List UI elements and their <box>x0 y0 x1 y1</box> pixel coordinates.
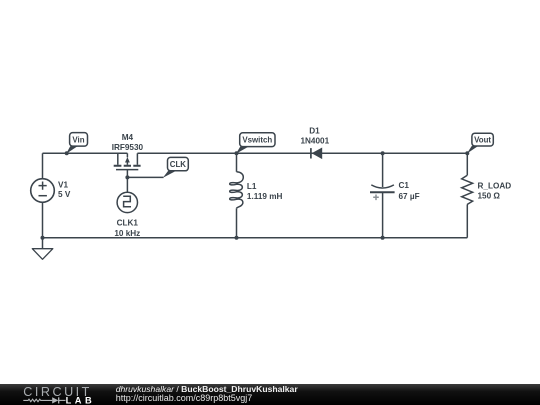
junction dot C1 top <box>381 151 385 155</box>
svg-text:1.119 mH: 1.119 mH <box>247 192 283 201</box>
node Vout flag <box>467 133 494 153</box>
svg-text:10 kHz: 10 kHz <box>114 229 140 238</box>
CircuitLab logo text LAB <box>66 396 96 405</box>
junction dot V1 ground <box>41 236 45 240</box>
capacitor C1 <box>370 153 420 237</box>
node Vswitch flag <box>236 133 275 154</box>
junction dot C1 bottom <box>381 236 385 240</box>
svg-text:CLK1: CLK1 <box>117 218 139 227</box>
svg-text:150 Ω: 150 Ω <box>478 192 501 201</box>
svg-text:67 µF: 67 µF <box>399 192 420 201</box>
svg-text:D1: D1 <box>309 126 320 135</box>
resistor R_LOAD <box>462 153 512 237</box>
svg-text:R_LOAD: R_LOAD <box>478 181 512 190</box>
svg-text:Vswitch: Vswitch <box>242 136 272 145</box>
diode D1 <box>300 126 329 159</box>
CircuitLab logo wire with resistor and diode <box>23 397 65 403</box>
junction dot Vout tap <box>465 151 469 155</box>
footer line 1: author / title <box>116 384 299 394</box>
svg-text:L1: L1 <box>247 182 257 191</box>
ground <box>32 238 53 260</box>
junction dot Vswitch <box>235 151 239 155</box>
transistor M4 (PMOS IRF9530) <box>112 133 144 170</box>
svg-text:M4: M4 <box>122 133 134 142</box>
svg-text:IRF9530: IRF9530 <box>112 143 144 152</box>
footer bar <box>0 384 540 405</box>
junction dot gate node <box>125 175 129 179</box>
wire top rail left segment <box>43 152 128 154</box>
wire bottom rail <box>43 237 468 239</box>
inductor L1 <box>230 153 283 237</box>
svg-text:Vin: Vin <box>72 135 84 144</box>
node CLK flag <box>163 157 188 177</box>
svg-text:CLK: CLK <box>170 160 187 169</box>
junction dot Vin tap <box>65 151 69 155</box>
junction dot L1 bottom <box>235 236 239 240</box>
svg-text:LAB: LAB <box>66 396 96 405</box>
wire top rail right segment <box>137 152 467 154</box>
node Vin flag <box>66 133 87 154</box>
svg-text:5 V: 5 V <box>58 190 71 199</box>
wire gate to CLK flag <box>127 176 163 178</box>
footer line 2: url <box>116 393 253 403</box>
svg-text:http://circuitlab.com/c89rp8bt: http://circuitlab.com/c89rp8bt5vgj7 <box>116 393 253 403</box>
svg-text:1N4001: 1N4001 <box>300 136 329 145</box>
svg-text:Vout: Vout <box>474 136 491 145</box>
voltage source V1 <box>31 153 71 237</box>
clock source CLK1 <box>114 192 140 238</box>
svg-text:C1: C1 <box>399 181 410 190</box>
CircuitLab logo text CIRCUIT <box>23 385 92 399</box>
wire gate lead <box>126 170 128 193</box>
svg-text:V1: V1 <box>58 181 68 190</box>
